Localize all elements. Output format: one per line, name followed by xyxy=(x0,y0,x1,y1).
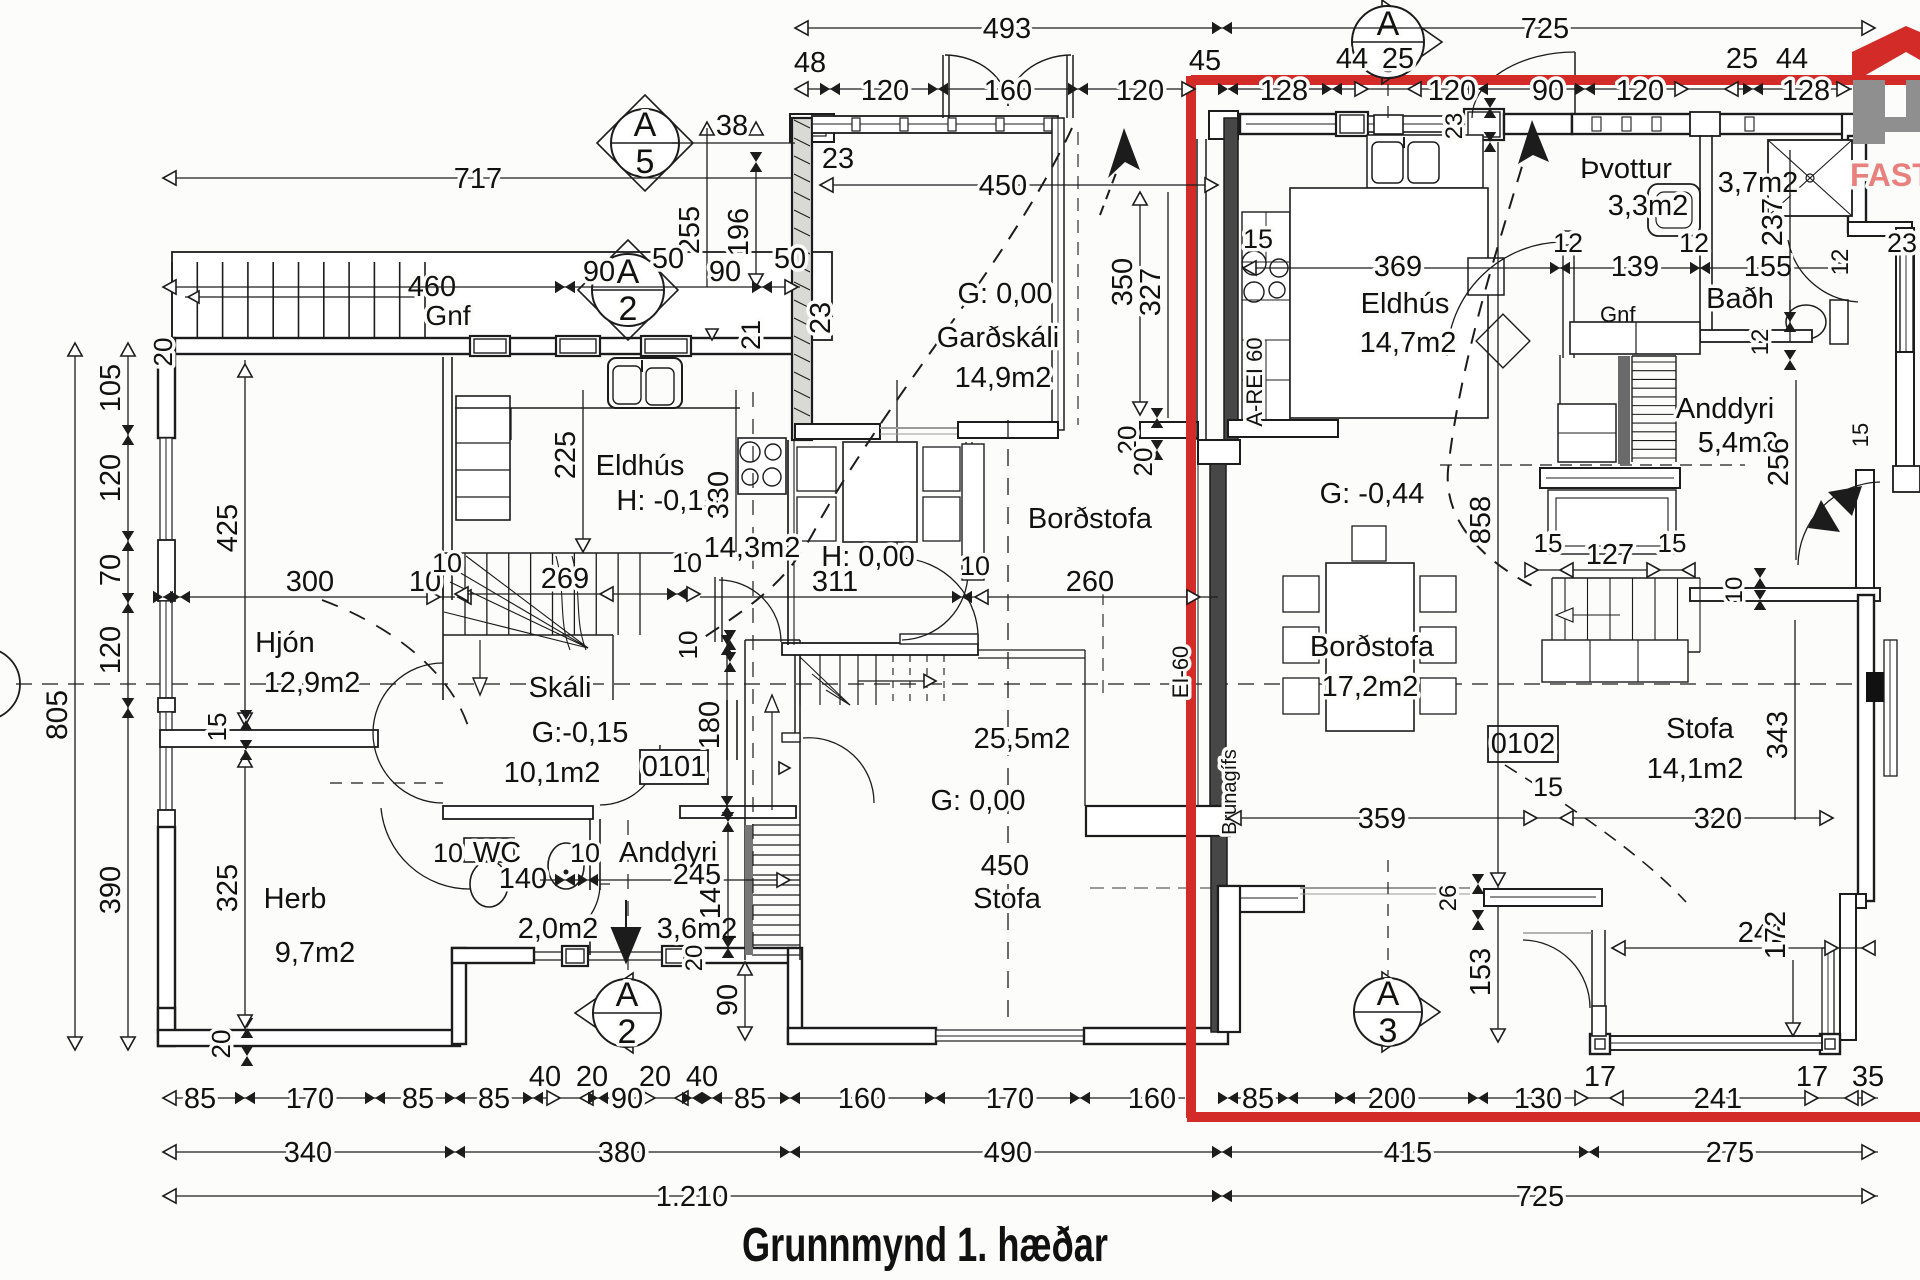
svg-text:10: 10 xyxy=(672,548,702,578)
stair upper flight treads xyxy=(795,655,944,733)
svg-text:170: 170 xyxy=(986,1083,1034,1115)
dim 425 xyxy=(212,360,252,728)
wall left-unit left mid xyxy=(158,712,175,827)
svg-text:725: 725 xyxy=(1516,1181,1564,1213)
wall left-unit top xyxy=(158,338,793,354)
svg-text:300: 300 xyxy=(286,566,334,598)
dining table right unit xyxy=(1283,526,1456,731)
escape dashed path right xyxy=(1448,140,1540,590)
svg-text:15: 15 xyxy=(202,713,232,742)
dim 20 rot bottomleft xyxy=(206,1018,253,1066)
svg-text:20: 20 xyxy=(576,1061,608,1093)
svg-text:120: 120 xyxy=(95,626,127,674)
svg-text:2: 2 xyxy=(619,290,638,328)
svg-text:120: 120 xyxy=(95,454,127,502)
wall gardskali corner box xyxy=(790,114,834,142)
dim 858 v xyxy=(1465,142,1505,888)
window box top wall 1 xyxy=(470,336,510,356)
dim row B xyxy=(163,1137,1878,1169)
window box top wall 2 xyxy=(556,336,600,356)
svg-text:Hjón: Hjón xyxy=(255,627,315,659)
svg-text:Eldhús: Eldhús xyxy=(596,450,685,482)
wall anddyri SE xyxy=(1856,470,1874,596)
terrace door arc xyxy=(1523,933,1592,1008)
svg-text:14,1m2: 14,1m2 xyxy=(1647,753,1744,785)
svg-text:Skáli: Skáli xyxy=(529,672,592,704)
svg-text:23: 23 xyxy=(822,143,854,175)
dim 40 20 20 40 xyxy=(529,1061,718,1093)
svg-text:23: 23 xyxy=(805,302,837,334)
svg-text:23: 23 xyxy=(1887,228,1917,258)
kitchen floor diamond xyxy=(1476,314,1530,368)
red unit boundary xyxy=(1187,76,1920,1118)
kitchen counter left xyxy=(456,396,510,520)
svg-text:237: 237 xyxy=(1757,198,1789,246)
wall bordstofa SW corner xyxy=(1218,886,1240,1032)
dim 172 v xyxy=(1760,911,1800,1036)
section marker A5 xyxy=(597,95,795,191)
svg-text:10: 10 xyxy=(432,548,462,578)
wall wc top xyxy=(443,806,593,819)
svg-text:85: 85 xyxy=(734,1083,766,1115)
dim 20 rot partywall xyxy=(1112,408,1163,460)
svg-text:15: 15 xyxy=(1534,528,1563,558)
svg-text:10: 10 xyxy=(673,631,703,660)
svg-text:FAST: FAST xyxy=(1850,157,1920,193)
svg-text:139: 139 xyxy=(1611,251,1659,283)
shower badh xyxy=(1768,140,1852,216)
section marker A3 top xyxy=(1352,0,1442,84)
dim 38 arrows xyxy=(700,110,763,172)
dim row 300 xyxy=(153,566,471,604)
wall stofa bottom right xyxy=(1084,1028,1228,1044)
kitchen appliance box xyxy=(1468,258,1504,295)
svg-text:17: 17 xyxy=(1584,1061,1616,1093)
wall anddyri bottom right xyxy=(688,948,796,963)
svg-text:128: 128 xyxy=(1782,75,1830,107)
dim 256 v xyxy=(1763,380,1796,560)
wall stofa right jog xyxy=(1840,894,1866,1040)
svg-text:805: 805 xyxy=(41,690,74,740)
svg-text:450: 450 xyxy=(981,850,1029,882)
svg-text:15: 15 xyxy=(1243,224,1273,254)
wall wc bottom xyxy=(452,948,534,963)
svg-text:15: 15 xyxy=(1658,528,1687,558)
svg-text:1.210: 1.210 xyxy=(656,1181,729,1213)
exit arrow left unit xyxy=(612,900,640,962)
svg-text:130: 130 xyxy=(1514,1083,1562,1115)
dim 20 rot frontdoor xyxy=(681,945,708,972)
black utility box xyxy=(1866,672,1896,702)
svg-text:40: 40 xyxy=(686,1061,718,1093)
wall under stair right xyxy=(1540,468,1680,488)
svg-text:127: 127 xyxy=(1586,539,1634,571)
svg-text:Gnf: Gnf xyxy=(425,300,470,331)
kitchen counter top right xyxy=(1367,135,1483,188)
dim row C xyxy=(163,1181,1878,1213)
toilet wc xyxy=(464,838,514,907)
window left wall 120 lower xyxy=(158,601,175,712)
wall right-unit top left xyxy=(1240,114,1352,134)
dim 196 vertical xyxy=(723,168,763,287)
svg-text:85: 85 xyxy=(402,1083,434,1115)
door thvottur leaf xyxy=(1562,231,1575,358)
svg-text:3: 3 xyxy=(1379,1012,1398,1050)
dim 390 chain xyxy=(95,812,135,1050)
door arc badh xyxy=(1788,240,1858,302)
svg-text:23: 23 xyxy=(1441,113,1468,140)
dim 20 rot gardskali low xyxy=(1128,448,1158,477)
dim 325 xyxy=(212,750,252,1030)
dim 10 rot stair xyxy=(673,630,736,672)
dim 237 v xyxy=(1757,150,1790,310)
svg-text:105: 105 xyxy=(95,364,127,412)
dashed line anddyri xyxy=(1440,464,1745,466)
svg-text:245: 245 xyxy=(673,859,721,891)
svg-text:450: 450 xyxy=(979,170,1027,202)
svg-text:A: A xyxy=(634,106,657,144)
door threshold front 2 xyxy=(588,952,662,960)
dim row top windows right xyxy=(1218,75,1852,107)
svg-text:340: 340 xyxy=(284,1137,332,1169)
svg-text:3,3m2: 3,3m2 xyxy=(1608,190,1689,222)
svg-text:717: 717 xyxy=(454,163,502,195)
dim 23 right edge xyxy=(1887,228,1917,258)
wall wc right xyxy=(590,819,600,890)
svg-text:12: 12 xyxy=(1553,228,1583,258)
dim 343 v xyxy=(1762,620,1795,820)
sofa blocks xyxy=(1542,640,1688,682)
svg-text:14,9m2: 14,9m2 xyxy=(955,362,1052,394)
svg-text:12: 12 xyxy=(1679,228,1709,258)
svg-text:275: 275 xyxy=(1706,1137,1754,1169)
door arc thvottur xyxy=(1447,242,1561,356)
stair right-unit upper xyxy=(1632,356,1676,462)
cabinet row anddyri xyxy=(1570,322,1700,354)
svg-text:Þvottur: Þvottur xyxy=(1580,153,1672,185)
svg-text:12,9m2: 12,9m2 xyxy=(264,667,361,699)
svg-text:160: 160 xyxy=(1128,1083,1176,1115)
svg-text:359: 359 xyxy=(1358,803,1406,835)
svg-text:14,7m2: 14,7m2 xyxy=(1360,327,1457,359)
window box right top 1 xyxy=(1336,112,1368,136)
dim 90 v door xyxy=(712,962,752,1040)
svg-text:493: 493 xyxy=(983,13,1031,45)
svg-text:45: 45 xyxy=(1189,45,1221,77)
dim row 369-139-155 xyxy=(1243,251,1850,283)
svg-text:2,0m2: 2,0m2 xyxy=(518,913,599,945)
wall badh right upper xyxy=(1848,136,1866,232)
svg-text:26: 26 xyxy=(1435,885,1462,912)
window stofa right xyxy=(1884,640,1897,776)
party wall texts xyxy=(1168,337,1267,834)
dim 225 v xyxy=(550,390,590,552)
wall badh south xyxy=(1700,300,1812,342)
window box front 2 xyxy=(662,946,688,966)
wall gardskali bottom xyxy=(795,424,958,439)
section line A2 xyxy=(628,392,753,985)
dashed swing 0102 xyxy=(1505,765,1686,902)
svg-text:Stofa: Stofa xyxy=(1666,713,1735,745)
svg-text:Grunnmynd 1. hæðar: Grunnmynd 1. hæðar xyxy=(742,1219,1108,1272)
svg-text:160: 160 xyxy=(984,75,1032,107)
wall bordstofa south xyxy=(1218,886,1304,912)
svg-text:225: 225 xyxy=(550,431,582,479)
svg-text:90: 90 xyxy=(611,1083,643,1115)
svg-text:25: 25 xyxy=(1726,43,1758,75)
svg-text:128: 128 xyxy=(1260,75,1308,107)
dining table left unit xyxy=(797,442,960,542)
dim 26 rot xyxy=(1435,874,1484,930)
kitchen sink left xyxy=(608,358,682,408)
label Gnf stair xyxy=(425,300,470,331)
svg-text:Garðskáli: Garðskáli xyxy=(937,322,1060,354)
dim 15 rot hjon xyxy=(202,710,252,760)
door arc bordstofa-stofa xyxy=(900,558,978,642)
svg-text:38: 38 xyxy=(716,110,748,142)
dim 45 xyxy=(1189,45,1221,77)
svg-text:311: 311 xyxy=(812,566,858,598)
label 0102 xyxy=(1488,726,1558,762)
svg-text:140: 140 xyxy=(499,863,547,895)
svg-text:48: 48 xyxy=(794,47,826,79)
dim 805 xyxy=(41,343,82,1050)
window stofa right lower xyxy=(1822,948,1834,1038)
svg-text:15: 15 xyxy=(1533,772,1563,802)
svg-text:A-REI 60: A-REI 60 xyxy=(1242,337,1267,426)
escape arrow right xyxy=(1518,120,1549,164)
wall left-unit left lower xyxy=(158,827,175,1032)
wall gardskali left xyxy=(792,118,812,440)
dim 460 stair xyxy=(408,271,456,303)
window box top wall 3 xyxy=(641,336,691,356)
basin wc xyxy=(548,843,584,889)
wall right-unit NE corner xyxy=(1842,114,1868,140)
svg-text:44: 44 xyxy=(1336,43,1368,75)
svg-text:A: A xyxy=(617,253,640,291)
svg-text:17: 17 xyxy=(1796,1061,1828,1093)
kitchen stove left xyxy=(738,438,786,494)
double door arcs gardskali xyxy=(943,55,1073,118)
kitchen island right xyxy=(1290,188,1488,418)
wall hjon right partition xyxy=(443,357,452,600)
wall herb bottom xyxy=(158,1030,460,1046)
logo house xyxy=(1852,26,1920,144)
svg-text:415: 415 xyxy=(1384,1137,1432,1169)
section marker A2 top xyxy=(578,240,678,340)
svg-text:269: 269 xyxy=(541,563,589,595)
dim 23 topleft gardskali xyxy=(822,143,854,175)
svg-text:G:-0,15: G:-0,15 xyxy=(532,717,629,749)
dashed path hjon xyxy=(322,600,468,783)
svg-text:200: 200 xyxy=(1368,1083,1416,1115)
party wall upper xyxy=(1197,111,1240,464)
svg-text:120: 120 xyxy=(1116,75,1164,107)
svg-text:85: 85 xyxy=(478,1083,510,1115)
section marker A3 bottom xyxy=(1354,972,1440,1052)
escape dashed path left xyxy=(700,128,1072,640)
dim 145 v xyxy=(695,812,734,958)
svg-text:260: 260 xyxy=(1066,566,1114,598)
party wall lower xyxy=(1211,836,1227,1032)
dim 450 gardskali xyxy=(820,170,1218,202)
door arc stair base xyxy=(779,733,874,803)
svg-text:90: 90 xyxy=(712,984,744,1016)
dim 48 xyxy=(794,47,826,79)
svg-text:180: 180 xyxy=(694,701,726,749)
svg-text:Eldhús: Eldhús xyxy=(1361,288,1450,320)
terrace post left xyxy=(1590,1034,1610,1054)
dim 50 50 xyxy=(652,243,806,275)
dim row A right xyxy=(1218,1083,1878,1115)
svg-text:10,1m2: 10,1m2 xyxy=(504,757,601,789)
svg-text:490: 490 xyxy=(984,1137,1032,1169)
stair right-unit lower xyxy=(1552,578,1700,652)
window gardskali right xyxy=(1052,118,1064,430)
svg-text:10: 10 xyxy=(960,551,990,581)
svg-text:425: 425 xyxy=(212,504,244,552)
svg-text:0102: 0102 xyxy=(1491,728,1556,760)
svg-text:327: 327 xyxy=(1135,268,1167,316)
kitchen cabinets left col xyxy=(1242,212,1290,420)
svg-text:172: 172 xyxy=(1760,911,1792,959)
dim 153 v xyxy=(1465,905,1505,1042)
wall stofa step vertical xyxy=(788,948,802,1043)
svg-text:Herb: Herb xyxy=(264,883,327,915)
kitchen counter front edge xyxy=(455,408,740,440)
svg-text:320: 320 xyxy=(1694,803,1742,835)
logo text xyxy=(1850,157,1920,193)
wall anddyri left xyxy=(589,940,591,955)
svg-text:120: 120 xyxy=(861,75,909,107)
gnf circle right xyxy=(1599,302,1636,339)
svg-text:90: 90 xyxy=(583,256,615,288)
svg-text:25,5m2: 25,5m2 xyxy=(974,723,1071,755)
dim 180 v xyxy=(694,635,733,816)
svg-text:70: 70 xyxy=(95,554,127,586)
wall step vertical at 458 xyxy=(452,948,466,1044)
svg-text:G: -0,44: G: -0,44 xyxy=(1320,478,1425,510)
wall stub gardskali to party xyxy=(1140,422,1198,438)
dim 20 rot topleft xyxy=(148,338,178,367)
svg-text:20: 20 xyxy=(681,945,708,972)
kitchen stove right xyxy=(1242,251,1288,302)
svg-text:120: 120 xyxy=(1428,75,1476,107)
wall right-unit top mid xyxy=(1504,114,1572,134)
svg-text:858: 858 xyxy=(1465,496,1497,544)
door arc 0101 xyxy=(600,745,660,805)
svg-text:15: 15 xyxy=(1848,423,1873,447)
svg-text:10: 10 xyxy=(1721,577,1748,604)
dim 350 v xyxy=(1107,192,1147,415)
dim row top windows left xyxy=(795,75,1195,107)
dim row 140-245 xyxy=(540,873,800,887)
svg-text:20: 20 xyxy=(639,1061,671,1093)
window right top xyxy=(1368,115,1464,134)
wall 0101 stub xyxy=(680,806,796,818)
washing machine xyxy=(1648,184,1700,236)
terrace wall bottom xyxy=(1606,1036,1822,1050)
svg-text:35: 35 xyxy=(1852,1061,1884,1093)
svg-text:A: A xyxy=(1377,975,1400,1013)
svg-text:20: 20 xyxy=(1128,448,1158,477)
dim 127 row xyxy=(1525,528,1695,577)
door arc wc xyxy=(545,884,610,940)
window anddyri right wall xyxy=(1900,250,1913,370)
dim 269 row xyxy=(432,548,702,601)
dim 25 44 right xyxy=(1726,43,1808,75)
section marker A2 bottom xyxy=(575,973,661,1053)
dim row 311 xyxy=(700,566,1218,604)
svg-text:25: 25 xyxy=(1382,43,1414,75)
dim 717 xyxy=(163,163,793,195)
room labels xyxy=(255,153,1798,969)
svg-text:Anddyri: Anddyri xyxy=(1676,393,1774,425)
svg-text:14,3m2: 14,3m2 xyxy=(704,532,801,564)
svg-text:10: 10 xyxy=(433,838,463,868)
dim 12 badh rot xyxy=(1827,249,1854,276)
svg-text:G: 0,00: G: 0,00 xyxy=(930,785,1025,817)
hatch strip stair xyxy=(1618,356,1630,464)
title Grunnmynd 1. haedar xyxy=(742,1219,1108,1272)
door arc skali-bordstofa xyxy=(715,577,781,642)
dim 330 v xyxy=(703,390,736,552)
svg-text:G: 0,00: G: 0,00 xyxy=(957,278,1052,310)
svg-text:85: 85 xyxy=(1242,1083,1274,1115)
svg-text:9,7m2: 9,7m2 xyxy=(275,937,356,969)
kitchen wall south xyxy=(1228,420,1338,437)
gray sliding-door line xyxy=(1090,887,1300,889)
svg-text:50: 50 xyxy=(652,243,684,275)
svg-text:21: 21 xyxy=(736,320,766,350)
window left wall 120 upper xyxy=(158,438,175,601)
gardskali dashed grid xyxy=(1008,132,1103,1028)
svg-text:369: 369 xyxy=(1374,251,1422,283)
svg-text:10: 10 xyxy=(570,838,600,868)
svg-text:85: 85 xyxy=(184,1083,216,1115)
stair upper flight beam xyxy=(782,634,1085,806)
section line A3 xyxy=(1387,84,1389,975)
svg-text:0101: 0101 xyxy=(642,751,707,783)
svg-text:170: 170 xyxy=(286,1083,334,1115)
dim 21 rot xyxy=(706,320,766,350)
window sill box right xyxy=(1893,466,1920,492)
wall skali right 0101 xyxy=(727,700,737,760)
closet anddyri xyxy=(1558,355,1616,462)
window gardskali bottom rail xyxy=(902,422,1058,640)
stair shaft box xyxy=(1548,490,1676,554)
dim 10 10 wc xyxy=(433,838,600,868)
party wall mid xyxy=(1193,464,1226,806)
svg-text:155: 155 xyxy=(1744,251,1792,283)
svg-text:Stofa: Stofa xyxy=(973,883,1042,915)
svg-text:725: 725 xyxy=(1521,13,1569,45)
door jamb terrace xyxy=(1592,930,1606,1036)
svg-text:EI-60: EI-60 xyxy=(1168,646,1193,699)
svg-text:20: 20 xyxy=(148,338,178,367)
party wall stub 806 xyxy=(1086,806,1230,836)
dim 17 17 35 xyxy=(1584,1061,1884,1093)
wall stofa-terrace xyxy=(1484,889,1602,906)
svg-text:380: 380 xyxy=(598,1137,646,1169)
svg-text:196: 196 xyxy=(723,208,755,256)
wall anddyri right lower xyxy=(1896,352,1914,468)
svg-text:3,7m2: 3,7m2 xyxy=(1718,167,1799,199)
dim chain left 105-120-70-120 xyxy=(95,343,135,812)
wall stofa top right stub xyxy=(1690,588,1880,601)
dim row 460/90 xyxy=(163,256,800,294)
dim 245 text xyxy=(673,859,721,891)
